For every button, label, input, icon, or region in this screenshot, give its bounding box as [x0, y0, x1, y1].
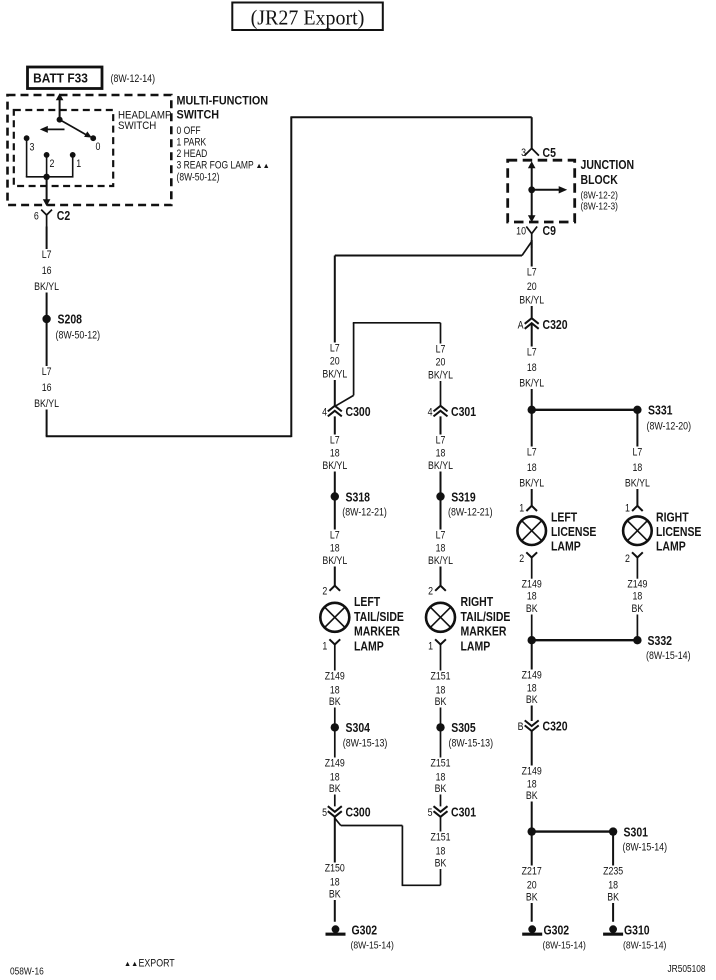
svg-text:BK: BK — [329, 783, 341, 795]
wire label L7 16 BK/YL — [30, 249, 64, 293]
wire contact 2 to output bus — [46, 155, 48, 177]
wire S331 to left license lamp — [531, 410, 533, 506]
svg-text:L7: L7 — [330, 435, 340, 447]
wire right tail lamp to splice — [440, 644, 442, 727]
svg-text:BK/YL: BK/YL — [428, 460, 453, 472]
node at left license feed — [528, 406, 536, 414]
svg-text:0 OFF: 0 OFF — [177, 125, 201, 137]
svg-text:BK: BK — [607, 892, 619, 904]
svg-text:Z149: Z149 — [522, 579, 542, 591]
svg-text:18: 18 — [527, 591, 537, 603]
label 5 C300 — [322, 805, 371, 819]
svg-text:1: 1 — [322, 641, 327, 653]
wire S301 to ground G302 — [531, 832, 533, 922]
svg-text:L7: L7 — [42, 366, 52, 378]
label 10 C9 — [516, 224, 556, 238]
label A C320 — [518, 318, 568, 332]
headlamp switch inner dashed box — [14, 110, 113, 186]
wire label Z150 18 BK — [321, 863, 349, 901]
wire label Z151 18 BK — [427, 671, 455, 709]
label G310 — [623, 924, 666, 952]
svg-text:18: 18 — [633, 591, 643, 603]
wire S332 to C320 B — [531, 640, 533, 721]
svg-text:S304: S304 — [346, 721, 371, 735]
label B C320 — [518, 720, 568, 734]
svg-text:(8W-12-2): (8W-12-2) — [581, 190, 618, 201]
svg-text:BK/YL: BK/YL — [519, 478, 544, 490]
label LEFT LICENSE LAMP — [551, 511, 597, 554]
wire S331 to right license lamp — [636, 410, 638, 506]
svg-text:1: 1 — [428, 641, 433, 653]
label G302 — [351, 924, 394, 952]
left license lamp pin 1 — [526, 506, 537, 511]
wire label L7 18 BK/YL — [424, 435, 458, 473]
svg-text:BK/YL: BK/YL — [34, 281, 59, 293]
wire C300 to left tail lamp — [334, 416, 336, 585]
wire switch output to C2 — [43, 177, 51, 206]
wire C301 to right tail lamp — [440, 416, 442, 585]
connector C9 pin 10 — [526, 227, 537, 249]
svg-text:Z149: Z149 — [325, 758, 345, 770]
svg-text:(JR27 Export): (JR27 Export) — [251, 7, 365, 30]
wire label Z151 18 BK — [427, 832, 455, 870]
svg-text:BK: BK — [435, 783, 447, 795]
connector C320 pin A — [525, 318, 539, 329]
svg-text:C301: C301 — [451, 805, 477, 819]
label RIGHT TAIL/SIDE MARKER LAMP — [461, 595, 511, 654]
svg-text:16: 16 — [42, 265, 52, 277]
svg-text:(8W-12-21): (8W-12-21) — [448, 507, 493, 519]
svg-text:18: 18 — [436, 448, 446, 460]
svg-text:C301: C301 — [451, 405, 477, 419]
svg-text:20: 20 — [436, 357, 446, 369]
svg-text:10: 10 — [516, 226, 526, 238]
svg-text:BK/YL: BK/YL — [322, 369, 347, 381]
wire corner to riser — [46, 435, 292, 437]
riser wire up to top run — [290, 117, 292, 437]
svg-text:C300: C300 — [346, 405, 372, 419]
node at G302 branch — [528, 827, 536, 835]
svg-text:BLOCK: BLOCK — [581, 173, 619, 187]
svg-text:2: 2 — [519, 553, 524, 565]
svg-text:18: 18 — [527, 683, 537, 695]
svg-text:SWITCH: SWITCH — [118, 121, 156, 133]
wire branch run down to C300 — [334, 256, 336, 406]
connector C300 pin 5 — [328, 806, 342, 817]
wire label L7 20 BK/YL — [318, 343, 352, 381]
left tail lamp pin 2 — [330, 586, 341, 591]
svg-text:L7: L7 — [436, 344, 446, 356]
svg-text:(8W-15-14): (8W-15-14) — [623, 940, 666, 952]
connector C300 pin 4 — [328, 406, 342, 417]
svg-text:BK/YL: BK/YL — [322, 555, 347, 567]
svg-text:6: 6 — [34, 211, 39, 223]
svg-text:L7: L7 — [527, 267, 537, 279]
wire label Z149 18 BK — [321, 758, 349, 796]
svg-text:S305: S305 — [451, 721, 476, 735]
splice S208 — [42, 313, 100, 342]
svg-text:S208: S208 — [58, 313, 83, 327]
svg-text:Z217: Z217 — [522, 866, 542, 878]
svg-text:C2: C2 — [57, 209, 71, 223]
svg-text:S318: S318 — [346, 490, 371, 504]
switch contact 1 — [70, 152, 81, 170]
svg-text:(8W-12-21): (8W-12-21) — [342, 507, 387, 519]
svg-text:▲▲: ▲▲ — [124, 959, 138, 968]
splice S301 tie line — [532, 830, 613, 832]
splice S319 — [436, 490, 492, 518]
junction block distribution arrow — [532, 186, 568, 193]
junction block internal node — [528, 186, 535, 193]
svg-text:18: 18 — [527, 779, 537, 791]
right tail/side marker lamp — [426, 603, 455, 632]
wire label Z149 18 BK — [518, 670, 546, 707]
label 4 C300 — [322, 405, 371, 419]
svg-text:C9: C9 — [543, 224, 557, 238]
svg-text:C300: C300 — [346, 805, 372, 819]
svg-text:Z149: Z149 — [522, 766, 542, 778]
svg-text:BK: BK — [435, 696, 447, 708]
svg-text:L7: L7 — [436, 530, 446, 542]
svg-text:S332: S332 — [648, 634, 673, 648]
wire label Z149 18 BK — [518, 579, 546, 616]
wire label L7 18 BK/YL — [318, 435, 352, 473]
svg-text:18: 18 — [330, 685, 340, 697]
wire left tail lamp to splice — [334, 644, 336, 727]
ground G302 (center) — [326, 925, 346, 935]
svg-text:5: 5 — [322, 807, 327, 819]
svg-text:18: 18 — [527, 462, 537, 474]
svg-text:LICENSE: LICENSE — [656, 525, 702, 539]
right tail lamp pin 2 — [435, 586, 446, 591]
label 3 C5 — [521, 146, 556, 160]
wire label L7 18 BK/YL — [318, 530, 352, 568]
svg-text:LAMP: LAMP — [551, 539, 581, 553]
svg-text:RIGHT: RIGHT — [461, 595, 494, 609]
label 6 C2 — [34, 209, 71, 223]
svg-text:L7: L7 — [330, 343, 340, 355]
svg-text:18: 18 — [633, 462, 643, 474]
svg-text:LAMP: LAMP — [656, 539, 686, 553]
right tail lamp pin 1 — [435, 639, 446, 644]
svg-text:(8W-15-13): (8W-15-13) — [449, 738, 494, 750]
svg-text:S331: S331 — [648, 404, 673, 418]
wire C320 B to S301 — [531, 731, 533, 832]
switch contact 2 — [44, 152, 55, 170]
label 4 C301 — [428, 405, 477, 419]
svg-text:(8W-12-14): (8W-12-14) — [111, 73, 156, 85]
right license lamp pin 1 — [632, 506, 643, 511]
svg-text:18: 18 — [330, 448, 340, 460]
svg-text:058W-16: 058W-16 — [10, 966, 44, 977]
svg-text:L7: L7 — [330, 530, 340, 542]
top run wire to junction block — [290, 116, 531, 118]
switch position legend — [177, 125, 270, 184]
svg-text:B: B — [518, 721, 524, 733]
svg-text:BK: BK — [526, 790, 538, 802]
svg-text:BK: BK — [632, 603, 644, 615]
svg-text:BK/YL: BK/YL — [625, 478, 650, 490]
svg-text:3 REAR FOG LAMP: 3 REAR FOG LAMP — [177, 160, 254, 172]
branch wire C9 to C300 run — [335, 242, 532, 256]
svg-text:LAMP: LAMP — [354, 639, 384, 653]
wire splice to C30x pin 5 — [440, 727, 442, 806]
svg-text:MULTI-FUNCTION: MULTI-FUNCTION — [177, 95, 269, 108]
svg-text:C5: C5 — [543, 146, 557, 160]
svg-text:L7: L7 — [436, 435, 446, 447]
footnote EXPORT — [124, 958, 175, 970]
svg-text:18: 18 — [608, 880, 618, 892]
svg-text:18: 18 — [436, 846, 446, 858]
wire down to C5 — [531, 117, 533, 148]
wire C2 to corner — [46, 227, 48, 437]
switch output junction — [43, 174, 49, 180]
left tail/side marker lamp — [320, 603, 349, 632]
connector C5 pin 3 — [525, 148, 539, 155]
label MULTI-FUNCTION SWITCH — [177, 95, 269, 122]
svg-text:BK: BK — [329, 696, 341, 708]
svg-text:(8W-12-20): (8W-12-20) — [647, 421, 692, 433]
label 5 C301 — [428, 805, 477, 819]
wire label L7 16 BK/YL — [30, 366, 64, 410]
connector C301 pin 4 — [434, 406, 448, 417]
svg-text:(8W-12-3): (8W-12-3) — [581, 201, 618, 212]
junction block feed arrow up — [528, 161, 536, 190]
ground G310 — [603, 925, 623, 935]
svg-text:S319: S319 — [451, 490, 476, 504]
wire label Z235 18 BK — [599, 866, 627, 904]
svg-text:0: 0 — [96, 141, 101, 153]
svg-text:LEFT: LEFT — [354, 595, 381, 609]
svg-text:LICENSE: LICENSE — [551, 525, 597, 539]
wire label Z149 18 BK — [518, 766, 546, 803]
svg-text:4: 4 — [322, 407, 327, 419]
wire C300 pin 5 to ground G302 — [334, 817, 336, 922]
svg-text:C320: C320 — [543, 318, 569, 332]
svg-text:LEFT: LEFT — [551, 511, 578, 525]
left license lamp — [517, 516, 546, 545]
svg-text:2: 2 — [625, 553, 630, 565]
svg-text:BK/YL: BK/YL — [519, 295, 544, 307]
svg-text:20: 20 — [527, 281, 537, 293]
wire label Z217 20 BK — [518, 866, 546, 904]
svg-text:BK: BK — [329, 889, 341, 901]
wire splice to C30x pin 5 — [334, 727, 336, 806]
svg-text:L7: L7 — [527, 447, 537, 459]
svg-text:Z151: Z151 — [430, 832, 450, 844]
svg-text:(8W-15-14): (8W-15-14) — [543, 940, 586, 952]
wire label L7 18 BK/YL — [515, 447, 549, 490]
svg-text:20: 20 — [527, 880, 537, 892]
svg-text:BK: BK — [526, 603, 538, 615]
wiper rotation arrow — [40, 126, 65, 133]
wire C320 to S331 — [531, 324, 533, 410]
connector C320 pin B — [525, 720, 539, 731]
svg-text:MARKER: MARKER — [354, 625, 400, 639]
wire label L7 18 BK/YL — [620, 447, 654, 490]
svg-text:BK/YL: BK/YL — [34, 398, 59, 410]
wire label L7 18 BK/YL — [515, 347, 549, 390]
splice S305 — [436, 721, 493, 749]
label RIGHT LICENSE LAMP — [656, 511, 702, 554]
switch common pivot — [57, 117, 63, 123]
svg-text:18: 18 — [527, 362, 537, 374]
svg-text:18: 18 — [330, 877, 340, 889]
svg-text:MARKER: MARKER — [461, 625, 507, 639]
node at left license return — [528, 636, 536, 644]
junction block output arrow down — [528, 190, 536, 223]
svg-text:1: 1 — [76, 158, 81, 170]
svg-text:(8W-50-12): (8W-50-12) — [177, 172, 220, 184]
wire label Z151 18 BK — [427, 758, 455, 796]
svg-text:20: 20 — [330, 356, 340, 368]
svg-text:Z235: Z235 — [603, 866, 623, 878]
svg-text:(8W-15-14): (8W-15-14) — [351, 940, 394, 952]
multi-function switch outer dashed box — [8, 95, 172, 205]
svg-text:18: 18 — [436, 543, 446, 555]
svg-text:Z149: Z149 — [627, 579, 647, 591]
splice S318 — [331, 490, 387, 518]
svg-text:2: 2 — [50, 158, 55, 170]
wire C9 down to C320 — [531, 240, 533, 318]
svg-text:G302: G302 — [544, 924, 570, 938]
svg-text:BK/YL: BK/YL — [519, 378, 544, 390]
svg-text:G302: G302 — [352, 924, 378, 938]
jumper wire C300 to C301 — [336, 323, 441, 406]
left license lamp pin 2 — [526, 552, 537, 557]
svg-text:2: 2 — [322, 586, 327, 598]
svg-text:S301: S301 — [624, 826, 649, 840]
svg-text:16: 16 — [42, 382, 52, 394]
svg-text:Z151: Z151 — [430, 671, 450, 683]
svg-text:RIGHT: RIGHT — [656, 511, 689, 525]
svg-text:BATT F33: BATT F33 — [33, 71, 88, 85]
svg-text:▲▲: ▲▲ — [256, 161, 270, 170]
wire right license lamp to S332 — [636, 558, 638, 637]
svg-text:Z150: Z150 — [325, 863, 345, 875]
svg-text:(8W-15-14): (8W-15-14) — [646, 650, 691, 662]
svg-text:JUNCTION: JUNCTION — [581, 158, 635, 172]
splice S331 — [633, 404, 691, 433]
jumper wire C301 return to C300 return — [335, 819, 440, 886]
svg-text:1: 1 — [519, 503, 524, 515]
svg-text:4: 4 — [428, 407, 433, 419]
wire label L7 20 BK/YL — [515, 267, 549, 307]
svg-text:18: 18 — [436, 685, 446, 697]
wire S301 to ground G310 — [612, 832, 614, 922]
svg-text:TAIL/SIDE: TAIL/SIDE — [354, 610, 404, 624]
splice S332 tie line — [532, 639, 638, 641]
label HEADLAMP SWITCH — [118, 110, 172, 132]
svg-text:3: 3 — [30, 142, 35, 154]
svg-text:5: 5 — [428, 807, 433, 819]
wire label Z149 18 BK — [321, 671, 349, 709]
svg-text:BK/YL: BK/YL — [322, 460, 347, 472]
svg-text:BK: BK — [435, 858, 447, 870]
svg-text:BK: BK — [526, 694, 538, 706]
svg-text:L7: L7 — [527, 347, 537, 359]
right license lamp pin 2 — [632, 552, 643, 557]
label G302 — [543, 924, 586, 952]
svg-text:G310: G310 — [624, 924, 650, 938]
wire label L7 18 BK/YL — [424, 530, 458, 568]
splice S332 — [633, 634, 690, 662]
label LEFT TAIL/SIDE MARKER LAMP — [354, 595, 404, 654]
wire contact 3 to output bus — [26, 138, 74, 177]
wire label Z149 18 BK — [623, 579, 651, 616]
splice S304 — [331, 721, 388, 749]
wire left license lamp to S332 — [531, 558, 533, 637]
svg-text:BK/YL: BK/YL — [428, 370, 453, 382]
svg-text:Z149: Z149 — [325, 671, 345, 683]
svg-text:3: 3 — [521, 147, 526, 159]
svg-text:Z149: Z149 — [522, 670, 542, 682]
right license lamp — [623, 516, 652, 545]
svg-text:BK: BK — [526, 892, 538, 904]
svg-text:L7: L7 — [42, 249, 52, 261]
battery feed box BATT F33 — [28, 67, 103, 89]
svg-text:BK/YL: BK/YL — [428, 555, 453, 567]
svg-text:(8W-15-14): (8W-15-14) — [623, 842, 668, 854]
svg-text:18: 18 — [330, 543, 340, 555]
wire label L7 20 BK/YL — [424, 344, 458, 382]
svg-text:JR505108: JR505108 — [668, 963, 706, 974]
wire contact 1 to output bus — [72, 155, 74, 177]
wire switch common to battery feed — [56, 93, 64, 119]
wire C301 pin 5 down — [440, 817, 442, 886]
svg-text:18: 18 — [436, 772, 446, 784]
left tail lamp pin 1 — [329, 639, 340, 644]
svg-text:Z151: Z151 — [430, 758, 450, 770]
svg-text:A: A — [518, 320, 524, 332]
label JUNCTION BLOCK — [581, 158, 635, 212]
svg-text:C320: C320 — [543, 720, 569, 734]
svg-text:(8W-50-12): (8W-50-12) — [56, 330, 101, 342]
svg-text:18: 18 — [330, 772, 340, 784]
svg-text:2 HEAD: 2 HEAD — [177, 148, 208, 160]
splice S301 — [609, 826, 667, 854]
svg-text:(8W-15-13): (8W-15-13) — [343, 738, 388, 750]
switch wiper arm to position 0 — [60, 120, 92, 138]
svg-text:L7: L7 — [633, 447, 643, 459]
svg-text:TAIL/SIDE: TAIL/SIDE — [461, 610, 511, 624]
svg-text:2: 2 — [428, 586, 433, 598]
svg-text:1: 1 — [625, 503, 630, 515]
connector C301 pin 5 — [434, 806, 448, 817]
svg-text:LAMP: LAMP — [461, 639, 491, 653]
svg-text:SWITCH: SWITCH — [177, 109, 220, 122]
splice S331 tie line — [532, 409, 638, 411]
switch contact 0 — [90, 135, 101, 153]
svg-text:EXPORT: EXPORT — [139, 958, 175, 970]
switch contact 3 — [24, 135, 35, 153]
connector C2 pin 6 — [41, 210, 52, 227]
title box (JR27 Export) — [232, 3, 382, 31]
ground G302 (right) — [522, 925, 542, 935]
svg-text:1 PARK: 1 PARK — [177, 137, 207, 149]
junction block dashed box — [508, 160, 575, 222]
